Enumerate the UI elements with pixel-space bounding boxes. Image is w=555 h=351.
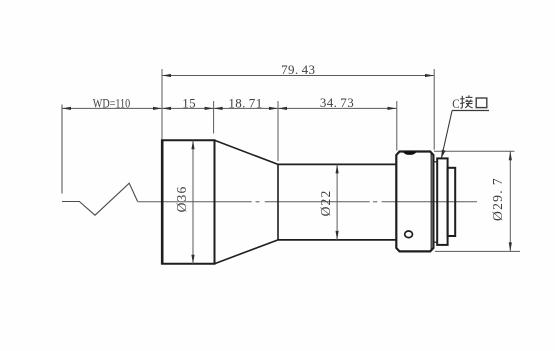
svg-text:18. 71: 18. 71	[228, 95, 262, 110]
extension lines of top dimensions	[162, 69, 434, 161]
glyph 接 (drawn)	[460, 95, 473, 108]
cone section	[215, 140, 279, 164]
index mark	[403, 151, 416, 155]
mid barrel (Ø22 tube)	[278, 163, 396, 165]
front barrel left edge (thick)	[161, 140, 164, 265]
dimension 79.43	[162, 75, 434, 77]
dimension Ø29.7	[509, 151, 511, 251]
svg-text:34. 73: 34. 73	[320, 95, 354, 110]
rear flange ring	[448, 168, 456, 236]
dimension chain line WD=110 / 15 / 18.71 / 34.73	[62, 107, 397, 109]
set screw hole	[405, 231, 413, 238]
svg-text:C: C	[452, 96, 459, 111]
focus ring (Ø29.7 body)	[396, 152, 433, 252]
leader line C-mount	[452, 110, 489, 112]
svg-text:79. 43: 79. 43	[281, 62, 315, 77]
front barrel (Ø36 cylinder)	[162, 140, 214, 263]
step groove lines	[433, 161, 437, 163]
object plane extension line	[61, 105, 63, 194]
C-mount thread ring	[437, 158, 447, 245]
cone/tube junction line	[277, 164, 279, 240]
focus ring chamfer line	[430, 153, 432, 251]
svg-text:Ø36: Ø36	[174, 186, 189, 213]
svg-text:15: 15	[182, 95, 196, 110]
optical axis break zigzag	[62, 183, 138, 215]
svg-text:Ø22: Ø22	[318, 190, 333, 217]
leader arrowhead	[441, 150, 446, 159]
glyph 口 (drawn)	[476, 98, 487, 108]
dimension Ø36	[192, 140, 194, 263]
arrows on chain dimension	[62, 107, 397, 110]
dimension Ø22	[336, 164, 338, 240]
optical axis centerline	[138, 201, 477, 203]
svg-text:WD=110: WD=110	[93, 96, 131, 110]
dimension Ø29.7 extension lines	[434, 150, 515, 152]
svg-text:Ø29. 7: Ø29. 7	[490, 177, 505, 221]
